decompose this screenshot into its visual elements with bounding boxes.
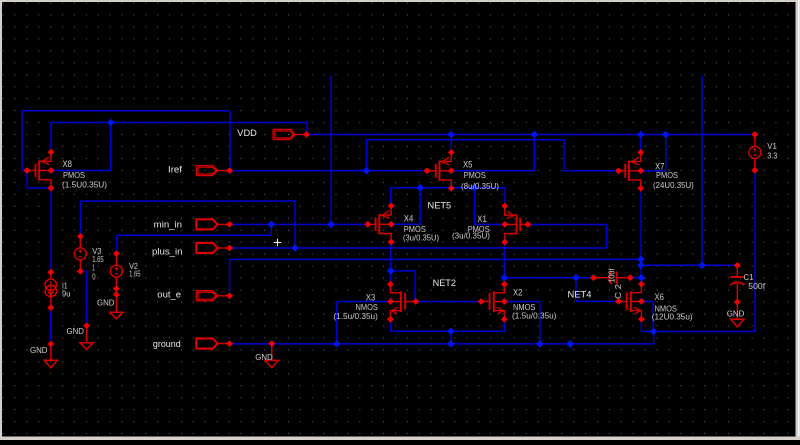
wire X6 source to ground corner (640, 320, 642, 332)
svg-text:(12U0.35u): (12U0.35u) (652, 312, 693, 322)
wire Iref bus (230, 170, 427, 172)
port Iref (196, 166, 217, 176)
wire X4 source down (390, 243, 392, 271)
wire NET4 rail right (630, 277, 641, 279)
svg-text:(24U0.35U): (24U0.35U) (653, 180, 694, 190)
svg-text:ground: ground (153, 339, 181, 349)
transistor X2 NMOS (493, 291, 495, 312)
capacitor C2 (594, 277, 611, 279)
junction ground/X2 bulk (536, 340, 544, 348)
voltage source V3 (79, 236, 81, 247)
wire V1 return (654, 331, 755, 333)
junction NET4/X1 source (501, 274, 509, 282)
junction min_in/V2 (267, 221, 275, 229)
svg-text:NET2: NET2 (433, 278, 456, 289)
junction VDD/X8 bulk (107, 119, 115, 127)
ground symbol under I1 (50, 344, 52, 360)
origin marker + (274, 242, 281, 244)
wire X7 source to X6 drain (640, 188, 642, 284)
transistor X1 PMOS mirrored (516, 214, 518, 234)
junction ground bus stub (567, 340, 575, 348)
ground symbol under V3 (86, 326, 88, 343)
svg-text:GND: GND (30, 345, 48, 355)
svg-text:X1: X1 (477, 214, 487, 224)
ground symbol under V2 (115, 295, 117, 313)
junction output/out_e (637, 256, 645, 264)
ground symbol at ground pin (271, 344, 273, 361)
wire ground bus (230, 343, 654, 345)
current source I1 (50, 272, 52, 279)
port ground (196, 339, 217, 349)
junction Iref/X7 branch (363, 167, 371, 175)
junction ground corner (650, 328, 658, 336)
junction ground bus (447, 340, 455, 348)
wire plus_in to X1 gate (606, 225, 608, 249)
wire NET5 to X1 drain (504, 188, 506, 206)
voltage source V1 (754, 135, 756, 147)
junction NET5/X1 bulk (471, 184, 479, 192)
wire X1 bulk to NET5 (474, 188, 476, 225)
wire I1 to GND (50, 308, 52, 345)
junction VDD/X7 bulk (662, 131, 670, 139)
wire NET2 (416, 301, 481, 303)
transistor X8 PMOS (38, 160, 40, 180)
capacitor C1 (736, 265, 738, 277)
ground symbol under C1 (736, 302, 738, 319)
svg-text:X3: X3 (366, 292, 376, 302)
junction output/C1 line (637, 262, 645, 270)
wire stub below ground bus (569, 344, 571, 348)
svg-text:NET5: NET5 (428, 200, 452, 211)
junction ground/X3 bulk (333, 340, 341, 348)
svg-text:PMOS: PMOS (656, 170, 678, 180)
svg-text:X2: X2 (513, 287, 523, 297)
svg-text:PMOS: PMOS (464, 170, 486, 180)
wire X2 bulk to ground (504, 301, 540, 303)
junction VDD/X5 drain (447, 131, 455, 139)
port min_in (196, 219, 217, 229)
wire stub above min_in junction (330, 75, 332, 224)
voltage source V2 (115, 254, 117, 265)
svg-text:(1.5u/0.35u): (1.5u/0.35u) (333, 311, 378, 321)
wire output to C1 (641, 264, 737, 266)
wire NET4 to X6 gate (575, 278, 577, 302)
junction source-link/ground (447, 328, 455, 336)
junction NET4/X6 gate (572, 274, 580, 282)
junction NET4/output (638, 274, 646, 282)
wire NET5 to X4 drain (390, 188, 392, 206)
svg-text:VDD: VDD (237, 128, 257, 138)
svg-text:GND: GND (727, 308, 745, 318)
wire plus_in bus (230, 247, 607, 249)
svg-text:Iref: Iref (168, 164, 183, 174)
junction VDD/X7 drain (637, 131, 645, 139)
wire Iref to X7 gate (367, 140, 619, 171)
wire X4 bulk to NET5 (391, 223, 420, 225)
wire X8 gate-source tie (26, 171, 28, 189)
wire out_e riser (229, 259, 231, 295)
wire X5 drain to VDD (450, 135, 452, 153)
wire X8 source to I1 (50, 188, 52, 272)
svg-text:100f: 100f (606, 268, 616, 283)
svg-text:GND: GND (67, 326, 85, 336)
wire NET4 rail left (504, 277, 593, 279)
svg-text:9u: 9u (62, 288, 71, 298)
transistor X7 PMOS (628, 161, 630, 181)
svg-text:GND: GND (255, 352, 272, 362)
svg-text:X6: X6 (655, 292, 665, 302)
wire min_in to X4 gate (230, 223, 368, 225)
wire X5 bulk to VDD (451, 170, 534, 172)
junction plus_in/V3 (291, 244, 299, 252)
wire X8 bulk to VDD (51, 170, 111, 172)
wire NET5 rail (391, 187, 505, 189)
window border (0, 0, 800, 2)
junction VDD/X5 bulk (530, 131, 538, 139)
port out_e (196, 291, 217, 301)
svg-text:0: 0 (92, 272, 95, 282)
svg-text:X8: X8 (63, 159, 73, 169)
svg-text:500f: 500f (748, 281, 765, 291)
junction C1 line/stub (698, 262, 706, 270)
wire VDD rail (307, 134, 755, 136)
junction NET5/X4 bulk (416, 184, 424, 192)
svg-text:plus_in: plus_in (152, 247, 183, 257)
wire Iref: top loop to X8 gate (22, 110, 230, 112)
wire X3 bulk to ground (337, 301, 391, 303)
wire X1 source down (503, 242, 505, 277)
svg-text:(1.5u/0.35u): (1.5u/0.35u) (512, 311, 557, 321)
wire plus_in to V3 (294, 201, 296, 248)
wire min_in to V2 (270, 224, 272, 235)
svg-text:(8u/0.35U): (8u/0.35U) (461, 181, 499, 191)
svg-text:X4: X4 (404, 213, 414, 223)
svg-text:C 2: C 2 (613, 284, 623, 299)
wire stub above C1 line (701, 75, 703, 265)
svg-text:GND: GND (97, 297, 115, 307)
transistor X4 PMOS (378, 214, 380, 234)
svg-text:3.3: 3.3 (767, 150, 777, 160)
junction min_in/stub (327, 221, 335, 229)
wire X3/X2 source link (390, 320, 392, 332)
wire X7 bulk to VDD (641, 170, 666, 172)
svg-text:out_e: out_e (157, 290, 181, 300)
wire X3 diode tie (390, 271, 392, 284)
port plus_in (196, 243, 217, 253)
wire V3 to GND (80, 270, 86, 272)
wire out_e bus (230, 258, 641, 260)
svg-text:NET4: NET4 (568, 289, 592, 300)
svg-text:1.65: 1.65 (129, 268, 141, 278)
transistor X6 NMOS (630, 291, 632, 312)
svg-text:X5: X5 (463, 160, 473, 170)
transistor X5 PMOS (438, 161, 440, 181)
wire VDD upper branch (50, 123, 52, 153)
svg-text:(3u/0.35U): (3u/0.35U) (403, 233, 439, 243)
port VDD (273, 129, 295, 139)
wire X7 drain to VDD (640, 135, 642, 153)
wire X6 bulk to ground corner (641, 300, 653, 302)
svg-text:(1.5U0.35U): (1.5U0.35U) (62, 179, 107, 189)
junction NET2 top (387, 267, 395, 275)
svg-text:min_in: min_in (154, 220, 182, 230)
svg-text:(3u/0.35U): (3u/0.35U) (452, 231, 490, 241)
transistor X3 NMOS mirrored (400, 291, 402, 312)
